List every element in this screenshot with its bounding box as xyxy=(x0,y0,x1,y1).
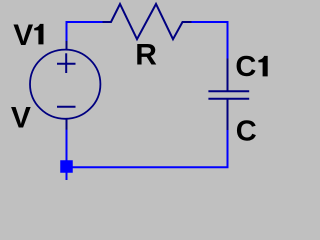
svg-text:C: C xyxy=(236,115,257,147)
wire from capacitor bottom to bottom-right corner and left to junction xyxy=(73,130,228,167)
svg-text:C: C xyxy=(235,51,256,83)
svg-text:V: V xyxy=(13,19,33,52)
wire stub below junction to bottom edge xyxy=(66,173,68,181)
svg-text:R: R xyxy=(135,38,157,71)
junction node (filled blue square) xyxy=(60,160,73,173)
wire from voltage source top to top rail corner xyxy=(67,22,103,41)
resistor R xyxy=(103,4,192,39)
label V1 xyxy=(13,19,43,52)
label C1 xyxy=(235,51,267,83)
wire from resistor to top-right corner and down xyxy=(192,22,229,59)
voltage source V1 xyxy=(30,41,100,130)
svg-text:V: V xyxy=(11,101,31,134)
wire from voltage source bottom to junction xyxy=(66,130,68,161)
label R xyxy=(135,38,157,71)
capacitor C1 xyxy=(208,59,249,131)
label V xyxy=(11,101,31,134)
label C xyxy=(236,115,257,147)
